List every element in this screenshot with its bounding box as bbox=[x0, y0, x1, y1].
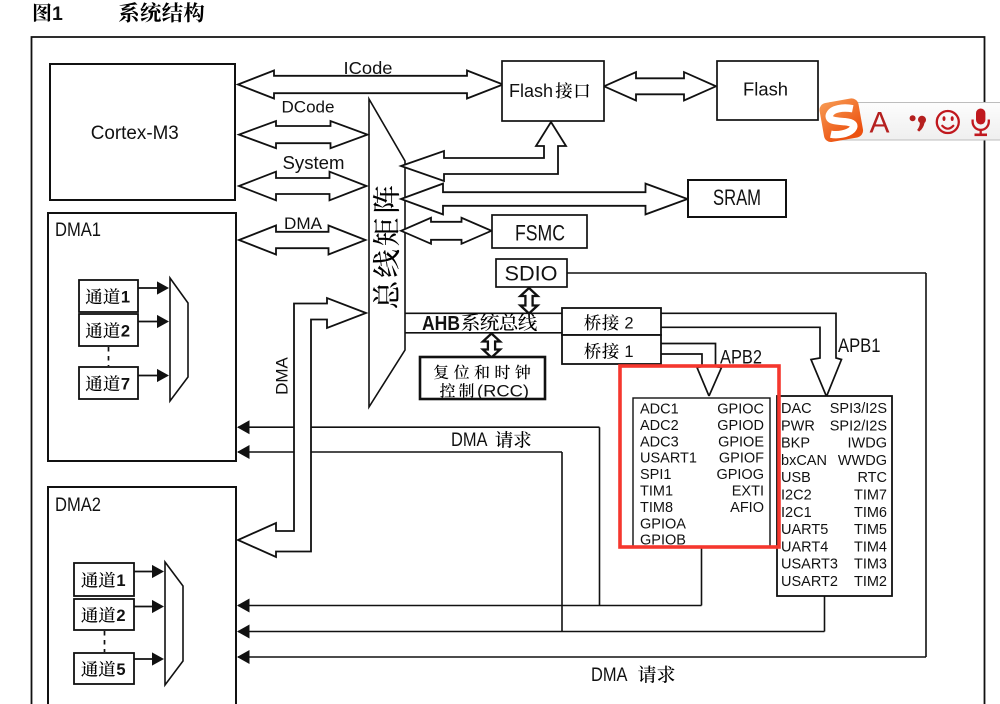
svg-text:ADC1: ADC1 bbox=[640, 402, 679, 418]
wire: DMA2 request line from APB2 bbox=[238, 605, 702, 607]
svg-text:FSMC: FSMC bbox=[515, 221, 565, 246]
svg-text:System: System bbox=[283, 153, 345, 173]
title 图1 系统结构 bbox=[34, 3, 51, 22]
block SDIO bbox=[496, 259, 567, 287]
svg-text:I2C2: I2C2 bbox=[781, 488, 812, 504]
wire: bridge1 -> APB2 hollow down arrow bbox=[661, 344, 722, 397]
block APB2 peripherals bbox=[633, 398, 770, 547]
wire: DMA bus arrow bbox=[239, 226, 366, 255]
arrowheads into DMA1 bbox=[237, 420, 250, 434]
svg-text:I2C1: I2C1 bbox=[781, 505, 812, 521]
svg-text:APB1: APB1 bbox=[838, 336, 881, 357]
svg-text:UART5: UART5 bbox=[781, 522, 828, 538]
svg-text:A: A bbox=[870, 107, 890, 140]
wire: channel connectors DMA1 bbox=[138, 287, 158, 289]
svg-text:TIM1: TIM1 bbox=[640, 484, 673, 500]
svg-text:GPIOA: GPIOA bbox=[640, 516, 686, 532]
svg-text:DCode: DCode bbox=[282, 98, 335, 117]
wire: hollow DMA arrow (DMA2/bus-matrix trunk) bbox=[238, 298, 366, 557]
svg-text:ADC2: ADC2 bbox=[640, 418, 679, 434]
svg-text:SDIO: SDIO bbox=[505, 263, 558, 286]
svg-text:2: 2 bbox=[116, 607, 125, 625]
dashed line DMA1 channels bbox=[108, 347, 110, 366]
mux DMA2 bbox=[165, 562, 183, 685]
svg-text:1: 1 bbox=[624, 343, 633, 361]
wire: bus matrix -> Flash interface L-arrow bbox=[401, 122, 566, 181]
wire: Flash interface <-> Flash arrow bbox=[604, 72, 716, 100]
wire: System bus arrow bbox=[239, 172, 367, 201]
svg-text:1: 1 bbox=[121, 289, 130, 307]
svg-text:TIM8: TIM8 bbox=[640, 500, 673, 516]
svg-text:AFIO: AFIO bbox=[730, 500, 764, 516]
svg-text:DMA2: DMA2 bbox=[55, 495, 101, 516]
wire: bus matrix <-> FSMC arrow bbox=[401, 218, 492, 244]
svg-text:UART4: UART4 bbox=[781, 539, 828, 555]
svg-text:EXTI: EXTI bbox=[732, 484, 764, 500]
wire: DMA2 request line from APB1 bbox=[238, 631, 825, 633]
wire: bridge2 -> APB1 hollow down arrow bbox=[661, 313, 842, 396]
block 桥接2 bbox=[562, 308, 661, 335]
svg-text:DMA: DMA bbox=[591, 665, 628, 686]
block Flash bbox=[717, 61, 818, 120]
wire: DMA1 request line B (from APB1 branch) bbox=[238, 451, 562, 453]
svg-text:SPI2/I2S: SPI2/I2S bbox=[830, 418, 887, 434]
svg-text:SRAM: SRAM bbox=[713, 185, 761, 210]
svg-text:Flash: Flash bbox=[743, 80, 788, 100]
block 桥接1 bbox=[562, 335, 661, 364]
svg-text:TIM2: TIM2 bbox=[854, 574, 887, 590]
wire: AHB system bus lines bbox=[405, 312, 562, 314]
block RCC (复位和时钟控制) bbox=[420, 357, 545, 399]
svg-text:USART1: USART1 bbox=[640, 451, 697, 467]
block 通道2 (DMA2) bbox=[74, 599, 134, 630]
svg-text:IWDG: IWDG bbox=[848, 436, 887, 452]
svg-text:DAC: DAC bbox=[781, 401, 812, 417]
svg-text:USART3: USART3 bbox=[781, 557, 838, 573]
svg-text:TIM4: TIM4 bbox=[854, 539, 887, 555]
svg-text:1: 1 bbox=[52, 3, 63, 25]
block 通道2 (DMA1) bbox=[79, 314, 138, 346]
svg-text:TIM3: TIM3 bbox=[854, 557, 887, 573]
block DMA2 bbox=[48, 487, 236, 704]
svg-text:bxCAN: bxCAN bbox=[781, 453, 827, 469]
wire: channel connectors DMA2 bbox=[134, 571, 153, 573]
svg-text:2: 2 bbox=[121, 323, 130, 341]
Sogou IME toolbar bbox=[818, 97, 1000, 143]
svg-text:1: 1 bbox=[116, 572, 125, 590]
svg-text:7: 7 bbox=[121, 376, 130, 394]
block 通道7 (DMA1) bbox=[79, 367, 138, 399]
svg-text:USART2: USART2 bbox=[781, 574, 838, 590]
block APB1 peripherals bbox=[777, 396, 892, 596]
svg-text:GPIOF: GPIOF bbox=[719, 451, 764, 467]
svg-text:ADC3: ADC3 bbox=[640, 434, 679, 450]
svg-text:2: 2 bbox=[624, 315, 633, 333]
block 通道1 (DMA1) bbox=[79, 280, 138, 312]
wire: bus matrix <-> SRAM arrow bbox=[401, 184, 688, 215]
svg-text:DMA: DMA bbox=[273, 356, 292, 394]
svg-text:DMA: DMA bbox=[451, 430, 488, 451]
block Flash 接口 bbox=[502, 61, 604, 121]
block SRAM bbox=[688, 180, 786, 217]
wire: DCode bus arrow bbox=[239, 121, 368, 148]
wire: SDIO <-> AHB arrow bbox=[520, 288, 537, 314]
block FSMC bbox=[492, 215, 587, 248]
block Cortex-M3 bbox=[50, 64, 235, 200]
dashed line DMA2 channels bbox=[104, 631, 106, 652]
block 通道5 (DMA2) bbox=[74, 653, 134, 684]
svg-text:SPI1: SPI1 bbox=[640, 467, 671, 483]
block DMA1 bbox=[48, 213, 236, 461]
svg-text:Cortex-M3: Cortex-M3 bbox=[91, 123, 179, 144]
svg-text:5: 5 bbox=[116, 661, 125, 679]
svg-text:ICode: ICode bbox=[344, 58, 393, 78]
svg-text:TIM6: TIM6 bbox=[854, 505, 887, 521]
svg-text:AHB: AHB bbox=[422, 313, 460, 335]
svg-text:GPIOE: GPIOE bbox=[718, 434, 764, 450]
bus matrix (总线矩阵) bbox=[369, 99, 405, 407]
svg-text:GPIOD: GPIOD bbox=[717, 418, 764, 434]
svg-text:SPI3/I2S: SPI3/I2S bbox=[830, 401, 887, 417]
wire: AHB <-> RCC arrow bbox=[483, 334, 500, 358]
wire: DMA2 request line from SDIO bbox=[238, 656, 926, 658]
svg-text:GPIOC: GPIOC bbox=[717, 402, 764, 418]
wire: ICode bus arrow bbox=[238, 71, 503, 99]
arrowheads into DMA2 bbox=[237, 599, 250, 613]
svg-text:DMA1: DMA1 bbox=[55, 220, 101, 241]
svg-text:USB: USB bbox=[781, 470, 811, 486]
wire: DMA1 request line A (from APB2 branch) bbox=[238, 426, 600, 428]
svg-text:TIM7: TIM7 bbox=[854, 488, 887, 504]
svg-text:BKP: BKP bbox=[781, 436, 810, 452]
svg-text:RTC: RTC bbox=[857, 470, 887, 486]
svg-text:TIM5: TIM5 bbox=[854, 522, 887, 538]
mux DMA1 bbox=[170, 278, 188, 401]
svg-text:Flash: Flash bbox=[509, 81, 553, 101]
red highlight rectangle bbox=[620, 366, 779, 547]
svg-text:PWR: PWR bbox=[781, 418, 815, 434]
svg-text:DMA: DMA bbox=[284, 214, 323, 233]
svg-text:(RCC): (RCC) bbox=[477, 383, 529, 401]
block 通道1 (DMA2) bbox=[74, 563, 134, 596]
svg-text:WWDG: WWDG bbox=[838, 453, 887, 469]
svg-text:GPIOG: GPIOG bbox=[716, 467, 764, 483]
